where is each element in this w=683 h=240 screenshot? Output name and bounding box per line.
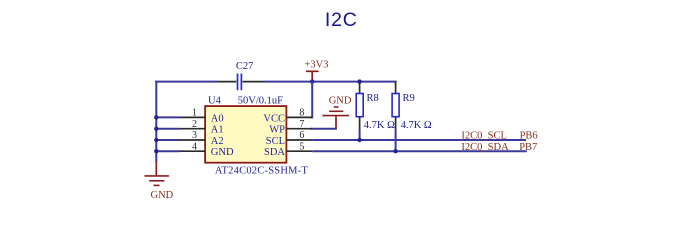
svg-text:GND: GND: [151, 190, 174, 201]
svg-text:1: 1: [192, 108, 197, 119]
svg-text:GND: GND: [211, 147, 234, 158]
svg-text:PB7: PB7: [519, 142, 537, 153]
svg-text:WP: WP: [269, 125, 285, 136]
svg-text:+3V3: +3V3: [305, 60, 329, 71]
wire SCL line: [312, 139, 526, 141]
pin 2: [180, 128, 206, 130]
svg-text:VCC: VCC: [263, 113, 285, 124]
svg-text:A2: A2: [211, 136, 224, 147]
svg-text:I2C0_SDA: I2C0_SDA: [461, 142, 509, 153]
svg-text:GND: GND: [329, 95, 352, 106]
junction pin4: [154, 149, 158, 153]
wire pin7 to ground: [311, 128, 337, 130]
svg-text:I2C: I2C: [325, 9, 358, 31]
svg-text:SCL: SCL: [266, 136, 285, 147]
svg-text:5: 5: [299, 141, 304, 152]
junction pin2: [154, 127, 158, 131]
pin 7: [286, 128, 312, 130]
junction +3V3 rail: [310, 79, 314, 83]
svg-text:3: 3: [192, 130, 197, 141]
svg-text:4.7K Ω: 4.7K Ω: [364, 120, 395, 131]
svg-text:U4: U4: [208, 95, 222, 106]
junction pin3: [154, 138, 158, 142]
svg-text:50V/0.1uF: 50V/0.1uF: [238, 95, 283, 106]
resistor R9: [392, 82, 399, 130]
IC U4 AT24C02C-SSHM-T body: [205, 106, 286, 163]
pin 3: [180, 139, 206, 141]
wire R8 bottom: [359, 130, 361, 141]
wire pin2 stub: [156, 128, 179, 130]
svg-text:I2C0_SCL: I2C0_SCL: [461, 131, 507, 142]
svg-text:R8: R8: [367, 93, 379, 104]
ground GND bottom left: [145, 162, 170, 185]
pin 6: [286, 139, 312, 141]
wire top rail right segment: [264, 81, 397, 83]
wire left vertical bus: [155, 81, 157, 163]
svg-text:2: 2: [192, 119, 197, 130]
capacitor C27: [218, 74, 264, 91]
svg-text:SDA: SDA: [264, 147, 285, 158]
ground GND at WP (inverted): [322, 107, 349, 129]
svg-text:A1: A1: [211, 125, 224, 136]
svg-text:8: 8: [299, 108, 304, 119]
pin 8: [286, 116, 312, 118]
resistor R8: [356, 82, 363, 130]
svg-text:4.7K Ω: 4.7K Ω: [401, 120, 432, 131]
wire top rail left segment: [155, 81, 218, 83]
wire R9 bottom: [395, 130, 397, 152]
junction R8 SCL: [357, 138, 361, 142]
pin 1: [180, 116, 206, 118]
junction pin1: [154, 115, 158, 119]
svg-text:C27: C27: [236, 61, 254, 72]
wire SDA line: [312, 150, 527, 152]
svg-text:7: 7: [299, 119, 304, 130]
svg-text:6: 6: [299, 130, 304, 141]
svg-text:AT24C02C-SSHM-T: AT24C02C-SSHM-T: [215, 166, 309, 177]
svg-text:R9: R9: [403, 93, 415, 104]
junction R9 SDA: [393, 149, 397, 153]
svg-text:A0: A0: [211, 113, 224, 124]
pin 4: [180, 150, 206, 152]
wire pin1 stub: [156, 116, 179, 118]
wire pin4 stub: [156, 150, 179, 152]
svg-text:4: 4: [192, 141, 197, 152]
junction R8 top: [357, 79, 361, 83]
wire pin3 stub: [156, 139, 179, 141]
power +3V3: [306, 71, 319, 81]
svg-text:PB6: PB6: [520, 131, 538, 142]
wire pin8 riser: [311, 81, 313, 118]
pin 5: [286, 150, 312, 152]
